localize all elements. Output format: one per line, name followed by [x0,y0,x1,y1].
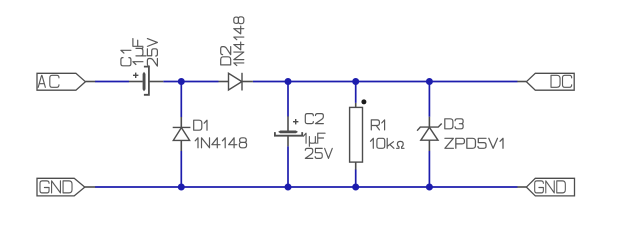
node AC tag [37,73,95,90]
label C1 voltage 25V [147,39,157,67]
wire D1 branch top [180,82,182,118]
wire C2 branch top [287,82,289,117]
label D2 value 1N4148 [234,17,244,66]
node DC tag [517,73,574,90]
label AC text [38,75,59,87]
node GND tag left [37,178,95,196]
label C2 value 1uF [303,133,325,146]
junction bottom at D1 [178,184,185,191]
wire D3 branch bottom [428,151,430,187]
junction top at C2 [285,78,292,85]
label C1 value 1uF [133,39,146,65]
wire C2 branch bottom [287,146,289,187]
resistor R1 [350,103,363,170]
label R1 value 10k ohm [371,138,405,148]
label C1 name [121,50,131,66]
junction bottom at R1 [352,184,359,191]
node GND tag right [517,178,574,196]
capacitor C1 [129,67,163,95]
label D3 value ZPD5V1 [445,138,503,148]
diode D2 [219,73,253,91]
wire AC to C1 [95,81,129,83]
zener diode D3 [417,117,442,151]
wire D3 branch top [428,82,430,117]
label GND right text [535,181,566,193]
wire R1 branch bottom [355,169,357,187]
label D3 name [445,119,463,129]
wire C1 to D2 [163,81,218,83]
label DC text [551,75,572,87]
label D2 name [221,47,231,65]
wire GND rail [95,186,518,188]
junction top at D3 [426,78,433,85]
wire D2 to DC [253,81,518,83]
diode D1 [173,117,191,151]
label C2 name [305,114,323,124]
capacitor C2 [275,116,302,146]
label C2 voltage 25V [305,148,332,158]
label D1 name [194,120,207,130]
junction bottom at C2 [285,184,292,191]
label GND left text [40,181,72,193]
junction top at R1 [352,78,359,85]
label R1 name [371,120,384,130]
junction bottom at D3 [426,184,433,191]
junction dot near R1 top [361,99,366,104]
wire R1 branch top [355,82,357,103]
wire D1 branch bottom [180,151,182,187]
junction top at D1 [178,78,185,85]
label D1 value 1N4148 [195,138,246,148]
